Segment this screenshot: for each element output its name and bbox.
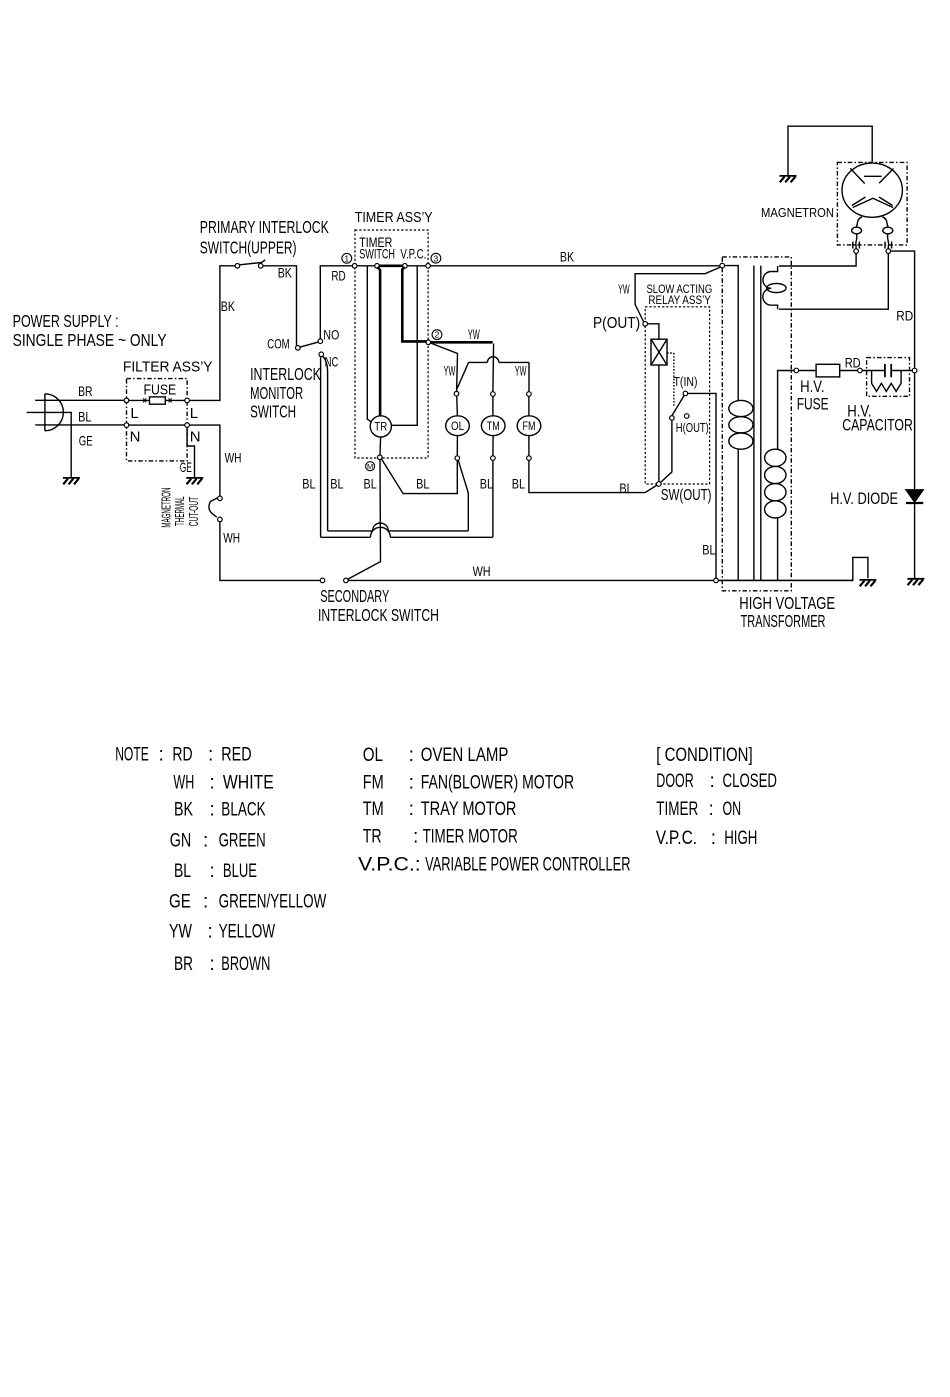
svg-text::: :: [409, 745, 414, 766]
node 2: [426, 340, 431, 345]
slow acting relay box: [645, 307, 709, 484]
svg-text:FUSE: FUSE: [144, 382, 177, 399]
label GE filter: [180, 459, 192, 475]
pin labels L L N N: [130, 405, 201, 446]
label HIGH VOLTAGE TRANSFORMER: [739, 593, 835, 631]
FM bottom terminal: [527, 456, 532, 461]
label T(IN): [674, 374, 698, 389]
secondary interlock contacts: [320, 578, 325, 583]
svg-text:V.P.C.:: V.P.C.:: [358, 855, 421, 876]
wire NC to inner rail: [323, 356, 328, 531]
power plug: [45, 394, 63, 431]
wire NC to outer rail: [320, 357, 322, 538]
label TIMER SWITCH V.P.C.: [359, 234, 426, 262]
wire filament top tap: [779, 253, 856, 266]
svg-text:SECONDARY: SECONDARY: [320, 586, 389, 606]
wire moving contact to SW(OUT): [661, 420, 672, 482]
wire tr left branch: [367, 266, 371, 422]
timer switch blade wire: [357, 265, 377, 267]
svg-text:FUSE: FUSE: [797, 395, 829, 414]
svg-text:BL: BL: [330, 475, 343, 491]
BL labels bottom row: [302, 475, 633, 496]
svg-text::: :: [409, 799, 414, 820]
svg-text:SWITCH: SWITCH: [359, 245, 395, 261]
NC contact: [319, 352, 324, 357]
magnetron terminal left: [854, 249, 859, 254]
svg-text:BROWN: BROWN: [221, 954, 270, 975]
svg-text:FILTER ASS’Y: FILTER ASS’Y: [123, 359, 213, 376]
svg-text:BL: BL: [78, 408, 91, 424]
label YW right: [515, 363, 527, 379]
wire cutout down to WH rail: [220, 522, 320, 581]
svg-text:INTERLOCK: INTERLOCK: [250, 364, 321, 384]
vpc contact: [403, 264, 408, 269]
wire L filter to primary interlock: [189, 266, 235, 401]
svg-text:THERMAL: THERMAL: [173, 496, 187, 526]
svg-text:RD: RD: [172, 744, 192, 765]
svg-text:BL: BL: [619, 480, 632, 496]
wire down to TM terminal: [492, 344, 495, 392]
svg-text:ON: ON: [723, 799, 742, 820]
label BK vertical wire: [221, 298, 236, 314]
svg-text:TIMER ASS’Y: TIMER ASS’Y: [355, 209, 433, 226]
wire node2 to OL terminal YW: [431, 343, 458, 391]
timer switch contact: [375, 264, 380, 269]
hv capacitor box: [867, 358, 910, 397]
svg-text:GE: GE: [180, 459, 192, 475]
svg-text:BL: BL: [364, 476, 377, 492]
svg-text:BK: BK: [221, 298, 236, 314]
svg-text::: :: [710, 771, 715, 792]
label BL: [78, 408, 91, 424]
H(OUT) contact: [684, 414, 689, 419]
ground filter GE: [186, 477, 203, 479]
primary winding wire bottom: [737, 449, 739, 580]
P(OUT) node: [643, 322, 648, 327]
cross wire OL to FM with hop: [457, 357, 529, 392]
svg-text:MAGNETRON: MAGNETRON: [160, 488, 174, 528]
svg-text:RD: RD: [896, 308, 913, 324]
magnetron top ground wire: [788, 126, 872, 176]
label FUSE: [144, 382, 177, 399]
svg-text:TRAY MOTOR: TRAY MOTOR: [421, 799, 517, 820]
wire M node down to secondary interlock: [348, 460, 381, 580]
label YW top: [468, 326, 480, 342]
label H.V. CAPACITOR: [842, 401, 913, 434]
ground magnetron: [780, 175, 797, 177]
wire into cap: [862, 370, 884, 372]
hv tap node: [794, 368, 799, 373]
wire filter GE to ground: [187, 427, 194, 478]
thick wire between contacts: [379, 264, 402, 267]
svg-text:SWITCH: SWITCH: [250, 402, 296, 422]
label YW left: [444, 363, 456, 379]
high voltage transformer box: [722, 257, 791, 591]
OL top terminal: [454, 391, 459, 396]
svg-text:BK: BK: [278, 265, 293, 281]
filament winding: [771, 266, 777, 309]
label TIMER ASS'Y: [355, 209, 433, 226]
FM fan motor: [517, 416, 541, 436]
label MAGNETRON: [761, 205, 834, 220]
wire BK node3 to transformer: [430, 265, 720, 267]
FM top terminal: [527, 392, 532, 397]
OL oven lamp: [446, 416, 470, 436]
svg-text:BL: BL: [416, 476, 429, 492]
wire down to diode: [914, 373, 916, 490]
svg-text:SINGLE PHASE ~ ONLY: SINGLE PHASE ~ ONLY: [13, 330, 167, 350]
label YW relay: [618, 281, 630, 296]
svg-text:YW: YW: [618, 281, 630, 296]
svg-text:BLACK: BLACK: [221, 799, 266, 820]
wires motors to bottom terminals: [457, 436, 529, 456]
thick wire node2 to TM branch: [431, 341, 493, 344]
label PRIMARY INTERLOCK SWITCH(UPPER): [200, 217, 329, 258]
relay blade T(IN) to moving contact: [672, 395, 684, 415]
svg-text::: :: [203, 891, 208, 912]
label NC: [325, 354, 339, 370]
svg-text:[ CONDITION]: [ CONDITION]: [656, 745, 752, 766]
svg-text:POWER SUPPLY :: POWER SUPPLY :: [13, 311, 119, 331]
fuse-cap node: [858, 368, 863, 373]
svg-text::: :: [709, 799, 714, 820]
hv fuse: [816, 364, 840, 377]
core lines: [754, 266, 761, 581]
wire TM terminal to motor: [492, 396, 494, 416]
junction node bottom: [714, 578, 719, 583]
svg-text:SWITCH(UPPER): SWITCH(UPPER): [200, 238, 297, 258]
OL bottom terminal: [455, 456, 460, 461]
label BR: [78, 383, 93, 399]
svg-text::: :: [210, 799, 215, 820]
wire WH rail to transformer junction: [348, 557, 868, 580]
svg-text:RELAY ASS’Y: RELAY ASS’Y: [648, 295, 711, 307]
svg-text:BR: BR: [78, 383, 93, 399]
svg-text::: :: [203, 831, 208, 852]
svg-text:3: 3: [434, 253, 439, 263]
svg-text:OL: OL: [451, 421, 465, 433]
moving contact: [670, 416, 675, 421]
TM tray motor: [481, 416, 505, 436]
wire GE plug to ground: [27, 412, 72, 478]
svg-text:WH: WH: [225, 449, 242, 465]
svg-text:PRIMARY INTERLOCK: PRIMARY INTERLOCK: [200, 217, 329, 237]
circled M: [366, 462, 375, 471]
svg-text:P(OUT): P(OUT): [593, 315, 640, 332]
wire T(IN) to transformer bottom: [688, 393, 716, 578]
outer BL rail with hop: [321, 527, 493, 537]
label H(OUT): [676, 420, 709, 435]
svg-text:FAN(BLOWER) MOTOR: FAN(BLOWER) MOTOR: [421, 773, 574, 794]
wire cap to right node: [892, 370, 912, 372]
cap right node: [912, 368, 917, 373]
svg-text:T(IN): T(IN): [674, 374, 698, 389]
primary winding wire top: [725, 266, 739, 401]
power supply label: [13, 311, 167, 350]
feedthrough ticks: [853, 242, 892, 249]
dotted linkage: [667, 353, 674, 406]
hv winding wire bottom: [777, 518, 779, 580]
svg-text:HIGH: HIGH: [724, 828, 757, 849]
svg-text:TM: TM: [487, 421, 500, 433]
label BK after switch: [278, 265, 293, 281]
T(IN) contact: [683, 391, 688, 396]
svg-text:WH: WH: [223, 529, 240, 545]
ground diode: [907, 578, 924, 580]
wire YW transformer node to P(OUT): [635, 267, 721, 322]
magnetron tube: [842, 163, 902, 217]
thick wire vpc contact to node 2: [402, 267, 427, 342]
svg-text:TIMER MOTOR: TIMER MOTOR: [423, 827, 518, 848]
svg-text:YW: YW: [515, 363, 527, 379]
circled 3: [431, 253, 441, 263]
terminal N left: [124, 423, 129, 428]
primary interlock blade: [240, 260, 266, 265]
hv diode D1: [906, 490, 923, 502]
svg-text:GN: GN: [170, 831, 192, 852]
svg-text:MAGNETRON: MAGNETRON: [761, 205, 834, 220]
svg-text:V.P.C.: V.P.C.: [656, 828, 697, 849]
svg-text::: :: [208, 744, 213, 765]
SW(OUT) node: [657, 482, 662, 487]
label RD: [331, 268, 345, 284]
ground transformer: [859, 579, 876, 581]
wire diode to ground: [914, 504, 916, 579]
svg-text:OL: OL: [363, 745, 383, 766]
capacitor plates: [885, 364, 891, 377]
magnetron filament lead right: [882, 217, 888, 227]
svg-text:N: N: [190, 429, 201, 446]
svg-text:BL: BL: [702, 541, 715, 557]
svg-text:NOTE: NOTE: [115, 744, 149, 765]
label WH upper: [225, 449, 242, 465]
relay coil K1: [651, 339, 667, 365]
svg-text::: :: [210, 772, 215, 793]
label BL tin wire: [702, 541, 715, 557]
svg-text:V.P.C.: V.P.C.: [400, 245, 426, 261]
svg-text:TRANSFORMER: TRANSFORMER: [741, 611, 826, 631]
label GE: [79, 433, 93, 449]
svg-text:DOOR: DOOR: [656, 771, 694, 792]
svg-text:YW: YW: [444, 363, 456, 379]
svg-text:H.V. DIODE: H.V. DIODE: [830, 489, 898, 508]
wire NO up to node 1 rail: [320, 266, 354, 339]
svg-text:2: 2: [435, 330, 440, 340]
svg-text::: :: [159, 744, 164, 765]
transformer bottom wire to ground: [718, 579, 853, 581]
magnetron anode vanes: [850, 168, 893, 207]
svg-text:TM: TM: [363, 799, 384, 820]
svg-text:L: L: [190, 405, 198, 422]
svg-text:SLOW ACTING: SLOW ACTING: [647, 284, 713, 296]
svg-text:BL: BL: [302, 475, 315, 491]
wire N filter to thermal cutout: [189, 425, 220, 496]
circled 1: [342, 253, 352, 263]
wire OL terminal to lamp: [456, 396, 459, 416]
label BK main: [560, 249, 575, 265]
svg-text:WH: WH: [173, 772, 194, 793]
svg-text:FM: FM: [523, 421, 536, 433]
magnetron thermal cut-out rotated label: [160, 488, 201, 528]
svg-text:OVEN LAMP: OVEN LAMP: [421, 745, 509, 766]
transformer top node: [720, 263, 725, 268]
svg-text:WH: WH: [473, 563, 491, 579]
svg-text:CAPACITOR: CAPACITOR: [842, 416, 913, 435]
svg-text:WHITE: WHITE: [223, 772, 274, 793]
svg-text:COM: COM: [267, 336, 289, 352]
magnetron cathode bar: [864, 175, 882, 177]
svg-text:FM: FM: [363, 773, 384, 794]
svg-text:YELLOW: YELLOW: [219, 922, 276, 943]
wire M node diagonal to OL return: [382, 459, 458, 494]
hv winding coil: [765, 449, 786, 466]
magnetron terminal right: [886, 249, 891, 254]
svg-text::: :: [208, 922, 213, 943]
thermal cutout contacts: [218, 496, 223, 501]
label SLOW ACTING RELAY ASS'Y: [647, 284, 713, 307]
TR motor: [370, 416, 391, 437]
terminal L left: [124, 398, 129, 403]
vpc blade wire to node 3: [407, 265, 428, 267]
wire TR to M node: [379, 437, 382, 455]
svg-text:BL: BL: [174, 861, 191, 882]
terminal N right: [185, 423, 190, 428]
magnetron filament lead left: [856, 217, 862, 227]
node 3: [426, 264, 431, 269]
svg-text:CUT-OUT: CUT-OUT: [187, 497, 201, 527]
label COM: [267, 336, 289, 352]
bleed resistor: [872, 371, 902, 392]
svg-text:INTERLOCK SWITCH: INTERLOCK SWITCH: [318, 605, 439, 625]
ground plug GE: [63, 477, 80, 479]
label SECONDARY INTERLOCK SWITCH: [318, 586, 439, 625]
wire BL plug to filter: [35, 424, 126, 426]
NO contact: [318, 339, 323, 344]
label H.V. FUSE: [797, 377, 829, 414]
svg-text:TR: TR: [374, 422, 387, 434]
label WH lower: [223, 529, 240, 545]
primary winding coil: [729, 400, 753, 416]
svg-text::: :: [413, 827, 418, 848]
label RD fuse: [845, 355, 861, 371]
svg-text:YW: YW: [169, 922, 192, 943]
wire tr right branch: [391, 266, 417, 426]
wire OL bottom to inner rail: [458, 460, 468, 531]
legend note color codes: [115, 744, 326, 975]
svg-text:MONITOR: MONITOR: [250, 383, 303, 403]
label NO: [323, 326, 339, 342]
wire filament bottom tap: [779, 253, 888, 309]
label SW(OUT): [661, 487, 712, 504]
svg-text:N: N: [130, 429, 141, 446]
svg-text::: :: [210, 954, 215, 975]
svg-text:BK: BK: [560, 249, 575, 265]
monitor switch blade COM to NO: [300, 342, 318, 347]
svg-text:GE: GE: [79, 433, 93, 449]
svg-text:CLOSED: CLOSED: [723, 771, 778, 792]
hv winding wire top: [778, 371, 795, 450]
label FILTER ASS'Y: [123, 359, 213, 376]
filter assy box: [127, 379, 188, 461]
wire FM terminal to motor: [528, 396, 530, 416]
svg-text:RED: RED: [221, 744, 251, 765]
wire TM bottom to outer rail: [492, 460, 494, 537]
svg-text:GE: GE: [169, 891, 191, 912]
label H.V. DIODE: [830, 489, 898, 508]
svg-text:1: 1: [344, 253, 349, 263]
COM contact: [296, 346, 301, 351]
svg-text:BLUE: BLUE: [223, 861, 257, 882]
svg-text:BR: BR: [174, 954, 193, 975]
label INTERLOCK MONITOR SWITCH: [250, 364, 321, 421]
wire hv tap to fuse: [799, 370, 858, 372]
svg-text:H.V.: H.V.: [800, 377, 824, 396]
circled 2: [432, 330, 442, 340]
TM top terminal: [491, 392, 496, 397]
wire BK to COM: [263, 266, 297, 346]
wire N through filter: [127, 424, 188, 426]
wire coil bottom to SW(OUT): [658, 365, 660, 482]
svg-text::: :: [210, 861, 215, 882]
wire FM bottom to SW(OUT): [529, 460, 659, 492]
wire magnetron anode to HV rail: [891, 251, 915, 368]
fuse F1: [127, 399, 188, 401]
thick wire timer switch to TR motor: [378, 267, 381, 416]
node 1: [352, 264, 357, 269]
svg-text:L: L: [130, 405, 138, 422]
timer assy box: [355, 230, 428, 458]
svg-text::: :: [409, 773, 414, 794]
TM bottom terminal: [491, 456, 496, 461]
legend condition: [656, 745, 777, 849]
thermal cutout blade: [209, 498, 217, 517]
svg-text:NO: NO: [323, 326, 339, 342]
svg-text:BL: BL: [480, 476, 493, 492]
wire P(OUT) to relay coil: [648, 324, 659, 339]
svg-text:YW: YW: [468, 326, 480, 342]
label WH rail: [473, 563, 491, 579]
label P(OUT): [593, 315, 640, 332]
svg-text::: :: [711, 828, 716, 849]
primary interlock switch contacts: [235, 264, 240, 269]
svg-text:H(OUT): H(OUT): [676, 420, 709, 435]
svg-text:GREEN: GREEN: [219, 831, 266, 852]
M node: [378, 455, 383, 460]
svg-text:M: M: [367, 462, 373, 471]
svg-text:SW(OUT): SW(OUT): [661, 487, 712, 504]
svg-text:BK: BK: [174, 799, 193, 820]
svg-text:TR: TR: [363, 827, 382, 848]
wire BR plug to filter: [35, 399, 126, 401]
svg-text:RD: RD: [331, 268, 345, 284]
magnetron box: [837, 162, 907, 245]
legend abbreviations: [358, 745, 630, 876]
label RD right: [896, 308, 913, 324]
terminal L right: [185, 398, 190, 403]
svg-text:GREEN/YELLOW: GREEN/YELLOW: [219, 891, 327, 912]
svg-text:VARIABLE POWER CONTROLLER: VARIABLE POWER CONTROLLER: [425, 855, 630, 876]
svg-text:BL: BL: [512, 476, 525, 492]
svg-text:TIMER: TIMER: [656, 799, 698, 820]
inner BL rail with hop: [328, 523, 469, 531]
